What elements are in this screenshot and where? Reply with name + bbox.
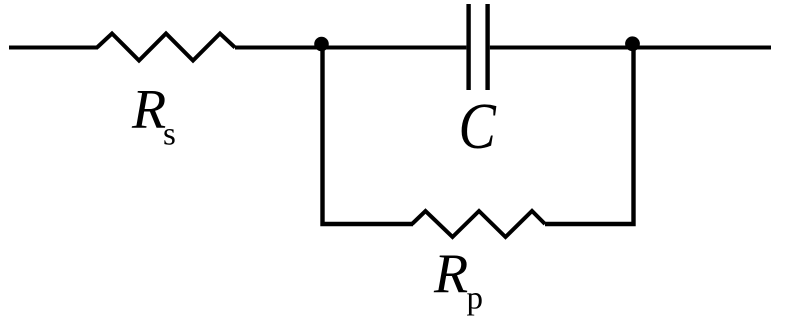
- wire: Rs output to left capacitor plate: [235, 46, 466, 50]
- node B: junction dot right: [625, 36, 640, 51]
- svg-text:R: R: [131, 79, 166, 141]
- resistor Rs: [97, 34, 235, 61]
- svg-text:C: C: [459, 91, 498, 163]
- wire: left lead into Rs: [9, 46, 98, 50]
- svg-text:s: s: [163, 117, 176, 153]
- capacitor C: [469, 4, 488, 90]
- label Rs: [131, 79, 176, 153]
- wire: left branch down to Rp: [323, 48, 414, 225]
- node A: junction dot left: [314, 37, 329, 52]
- wire: Rp to right branch up: [545, 48, 634, 225]
- wire: right capacitor plate to right lead: [490, 46, 771, 50]
- resistor Rp: [412, 211, 545, 237]
- svg-text:R: R: [433, 243, 468, 305]
- svg-text:p: p: [467, 281, 484, 317]
- label Rp: [433, 243, 483, 317]
